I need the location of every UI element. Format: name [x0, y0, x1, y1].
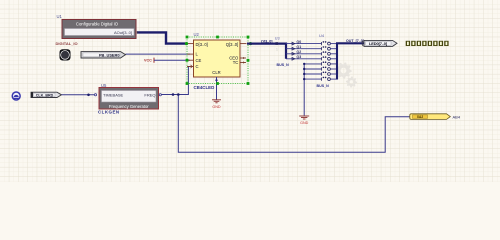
clock source icon: [12, 91, 21, 100]
selection box around U2: [185, 36, 252, 85]
svg-text:Q0: Q0: [297, 40, 302, 44]
label OUT_[7..0]: [346, 39, 364, 43]
svg-text:TC: TC: [233, 60, 239, 65]
net labels Q0-Q3: [292, 40, 301, 60]
wire: bus U2 Q[3..0] to bus entries: [247, 44, 286, 59]
svg-text:PB_USER0: PB_USER0: [99, 53, 120, 58]
svg-text:XA2: XA2: [417, 115, 423, 119]
svg-text:CLK_BRD: CLK_BRD: [36, 94, 54, 98]
svg-text:AB4: AB4: [453, 114, 461, 119]
wire: CLK_BRD to U5 TIMEBASE: [62, 94, 97, 97]
resistor array U4 bus entries: [319, 33, 337, 80]
svg-text:DIGITAL_IO: DIGITAL_IO: [56, 41, 78, 46]
branch wires Q0-Q3: [286, 44, 322, 59]
label CLKGEN: [98, 110, 120, 115]
svg-text:TIMEBASE: TIMEBASE: [103, 92, 124, 97]
label BUS_N (left): [277, 63, 290, 67]
LED indicators row: [406, 41, 449, 46]
svg-text:Q[3..0]: Q[3..0]: [226, 42, 239, 47]
ground GND right: [299, 116, 309, 125]
wire: grounded inputs to bus entries: [303, 63, 322, 116]
svg-text:CLR: CLR: [212, 70, 220, 75]
svg-text:FREQ: FREQ: [144, 92, 155, 97]
svg-text:C: C: [196, 64, 199, 69]
svg-text:1: 1: [276, 48, 278, 52]
component U5 Frequency Generator: [99, 83, 159, 109]
wire: output bus to LED port: [337, 43, 364, 79]
label Q[3..0] on bus: [261, 39, 273, 43]
svg-text:GND: GND: [300, 121, 309, 125]
wire: VCC to U2 CE pin: [154, 59, 190, 61]
svg-text:BUS_N: BUS_N: [317, 84, 330, 88]
svg-text:U4: U4: [319, 33, 325, 38]
net tie U3 on bus: [275, 36, 280, 51]
svg-text:Frequency Generator: Frequency Generator: [109, 104, 149, 109]
svg-text:Q3: Q3: [297, 55, 302, 59]
icon DIGITAL_IO connector: [60, 49, 71, 60]
wire: PB_USER0 to U2 L pin: [126, 53, 191, 55]
svg-text:BUS_N: BUS_N: [277, 63, 290, 67]
label BUS_N (under U4): [317, 84, 330, 88]
label DIGITAL_IO: [56, 41, 78, 46]
port PB_USER0: [81, 52, 126, 58]
port LED0[7..0]: [362, 40, 397, 46]
wire: clock net FREQ to U2 C pin and down to bottom rail: [162, 67, 411, 153]
component U2 counter CB4CLED: [194, 32, 241, 77]
component U1 Configurable Digital IO: [57, 14, 139, 39]
svg-text:CB4CLED: CB4CLED: [194, 85, 215, 90]
svg-text:CLKGEN: CLKGEN: [98, 110, 120, 115]
svg-text:U2: U2: [194, 32, 200, 37]
U2 pins: [187, 44, 247, 100]
svg-text:Q[3..0]: Q[3..0]: [261, 39, 273, 43]
port CLK_BRD: [31, 92, 62, 97]
label AB4: [453, 114, 461, 119]
svg-text:LED0[7..0]: LED0[7..0]: [369, 41, 388, 46]
svg-text:Q2: Q2: [297, 50, 302, 54]
svg-text:Configurable Digital IO: Configurable Digital IO: [76, 21, 119, 26]
svg-text:U1: U1: [57, 14, 63, 19]
U5 right pin circle: [159, 94, 161, 96]
port XA2 / AB4: [410, 114, 451, 120]
ground GND under U2: [212, 100, 221, 109]
svg-text:OUT_[7..0]: OUT_[7..0]: [346, 39, 364, 43]
svg-text:VCC: VCC: [144, 59, 152, 63]
label CB4CLED: [194, 85, 215, 90]
svg-text:CE: CE: [196, 58, 202, 63]
svg-text:AOut[3..0]: AOut[3..0]: [114, 30, 132, 35]
svg-text:Q1: Q1: [297, 45, 302, 49]
svg-text:D[3..0]: D[3..0]: [196, 42, 208, 47]
wire: bus U1 AOUT to U2 D[3..0]: [137, 32, 186, 43]
svg-text:U3: U3: [275, 36, 280, 40]
power port VCC: [144, 58, 154, 63]
svg-text:GND: GND: [212, 105, 221, 109]
gear watermark: [335, 62, 357, 87]
